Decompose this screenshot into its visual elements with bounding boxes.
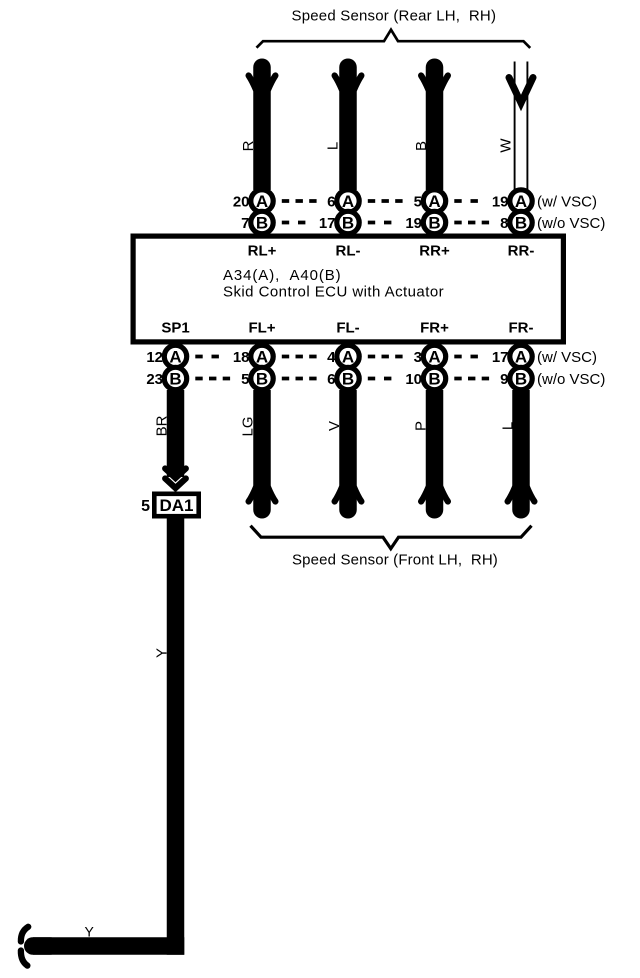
svg-text:5: 5 bbox=[141, 498, 150, 515]
svg-text:Skid Control ECU with Actuator: Skid Control ECU with Actuator bbox=[223, 283, 444, 300]
dashed wire link bbox=[282, 199, 317, 203]
connector pin 23 (B) front col 1 bbox=[146, 367, 186, 389]
connector pin 20 (A) rear col 1 bbox=[233, 190, 273, 212]
svg-text:9: 9 bbox=[500, 371, 508, 388]
connector pin 17 (B) rear col 2 bbox=[319, 211, 359, 233]
connector pin 7 (B) rear col 1 bbox=[241, 211, 273, 233]
svg-text:FL-: FL- bbox=[336, 319, 359, 336]
wire to front speed sensor, arrow down, column 4 bbox=[421, 390, 448, 510]
dashed wire link bbox=[368, 355, 403, 359]
svg-text:(w/ VSC): (w/ VSC) bbox=[537, 193, 597, 210]
svg-text:FR+: FR+ bbox=[420, 319, 449, 336]
dashed wire link bbox=[454, 221, 489, 225]
connector pin 4 (A) front col 3 bbox=[327, 345, 359, 367]
svg-text:18: 18 bbox=[233, 349, 250, 366]
svg-text:Y: Y bbox=[153, 648, 170, 658]
connector pin 9 (B) front col 5 bbox=[500, 367, 532, 389]
svg-text:FR-: FR- bbox=[509, 319, 534, 336]
svg-text:FL+: FL+ bbox=[248, 319, 275, 336]
svg-text:5: 5 bbox=[241, 371, 249, 388]
svg-text:RL-: RL- bbox=[336, 242, 361, 259]
connector pin 8 (B) rear col 4 bbox=[500, 211, 532, 233]
dashed wire link bbox=[454, 355, 478, 359]
connector pin 6 (A) rear col 2 bbox=[327, 190, 359, 212]
connector pin 19 (A) rear col 4 bbox=[492, 190, 532, 212]
svg-text:RR+: RR+ bbox=[419, 242, 450, 259]
dashed wire link bbox=[454, 199, 478, 203]
svg-text:V: V bbox=[326, 421, 343, 431]
svg-text:23: 23 bbox=[146, 371, 163, 388]
svg-text:7: 7 bbox=[241, 215, 249, 232]
svg-text:(w/ VSC): (w/ VSC) bbox=[537, 349, 597, 366]
svg-text:6: 6 bbox=[327, 193, 335, 210]
svg-text:W: W bbox=[497, 138, 514, 153]
wire from rear speed sensor, arrow up, column 1 bbox=[249, 67, 276, 190]
double chevron arrow into DA1 bbox=[165, 469, 186, 479]
svg-text:LG: LG bbox=[240, 416, 257, 436]
svg-text:Speed Sensor (Front LH, RH): Speed Sensor (Front LH, RH) bbox=[292, 551, 498, 568]
dashed wire link bbox=[195, 355, 219, 359]
connector pin 10 (B) front col 4 bbox=[405, 367, 445, 389]
wire RR- twisted pair (thin double line) bbox=[515, 62, 528, 191]
brace grouping front speed sensor wires bbox=[251, 526, 532, 549]
svg-text:L: L bbox=[324, 142, 341, 150]
dashed wire link bbox=[282, 221, 306, 225]
svg-text:L: L bbox=[499, 422, 516, 430]
svg-text:19: 19 bbox=[405, 215, 422, 232]
connector pin 12 (A) front col 1 bbox=[146, 345, 186, 367]
dashed wire link bbox=[195, 377, 230, 381]
connector pin 5 (B) front col 2 bbox=[241, 367, 273, 389]
brace grouping rear speed sensor wires bbox=[257, 30, 531, 48]
svg-text:Y: Y bbox=[85, 924, 95, 940]
wire to front speed sensor, arrow down, column 5 bbox=[508, 390, 535, 510]
Skid Control ECU box outline bbox=[133, 236, 563, 342]
svg-text:17: 17 bbox=[492, 349, 509, 366]
wire SP1 down to DA1 bbox=[167, 390, 185, 477]
svg-text:RL+: RL+ bbox=[248, 242, 277, 259]
svg-text:20: 20 bbox=[233, 193, 250, 210]
wire from rear speed sensor, arrow up, column 3 bbox=[421, 67, 448, 190]
svg-text:B: B bbox=[413, 141, 430, 151]
connector DA1 box bbox=[154, 494, 198, 516]
svg-text:4: 4 bbox=[327, 349, 336, 366]
dashed wire link bbox=[454, 377, 489, 381]
svg-text:3: 3 bbox=[414, 349, 422, 366]
svg-text:SP1: SP1 bbox=[161, 319, 189, 336]
arrow left at end of Y wire bbox=[21, 927, 50, 966]
connector pin 19 (B) rear col 3 bbox=[405, 211, 445, 233]
connector pin 3 (A) front col 4 bbox=[414, 345, 446, 367]
dashed wire link bbox=[282, 377, 317, 381]
wire to front speed sensor, arrow down, column 3 bbox=[335, 390, 362, 510]
svg-text:12: 12 bbox=[146, 349, 163, 366]
chevron arrow down on RR- wire bbox=[509, 78, 533, 104]
svg-text:(w/o VSC): (w/o VSC) bbox=[537, 371, 605, 388]
connector pin 17 (A) front col 5 bbox=[492, 345, 532, 367]
wire Y vertical run bbox=[167, 517, 185, 955]
wire to front speed sensor, arrow down, column 2 bbox=[249, 390, 276, 510]
svg-text:5: 5 bbox=[414, 193, 422, 210]
svg-text:8: 8 bbox=[500, 215, 508, 232]
dashed wire link bbox=[282, 355, 317, 359]
svg-text:6: 6 bbox=[327, 371, 335, 388]
svg-text:RR-: RR- bbox=[508, 242, 535, 259]
wire from rear speed sensor, arrow up, column 2 bbox=[335, 67, 362, 190]
dashed wire link bbox=[368, 377, 392, 381]
dashed wire link bbox=[368, 199, 403, 203]
svg-text:Speed Sensor (Rear LH, RH): Speed Sensor (Rear LH, RH) bbox=[292, 8, 497, 25]
svg-text:A34(A), A40(B): A34(A), A40(B) bbox=[223, 267, 342, 284]
connector pin 6 (B) front col 3 bbox=[327, 367, 359, 389]
connector pin 18 (A) front col 2 bbox=[233, 345, 273, 367]
svg-text:P: P bbox=[412, 421, 429, 431]
svg-text:19: 19 bbox=[492, 193, 509, 210]
svg-text:10: 10 bbox=[405, 371, 422, 388]
svg-text:17: 17 bbox=[319, 215, 336, 232]
svg-text:(w/o VSC): (w/o VSC) bbox=[537, 215, 605, 232]
svg-text:DA1: DA1 bbox=[159, 496, 193, 515]
dashed wire link bbox=[368, 221, 392, 225]
connector pin 5 (A) rear col 3 bbox=[414, 190, 446, 212]
wire Y horizontal run to page edge bbox=[33, 937, 184, 955]
svg-text:R: R bbox=[240, 140, 257, 151]
